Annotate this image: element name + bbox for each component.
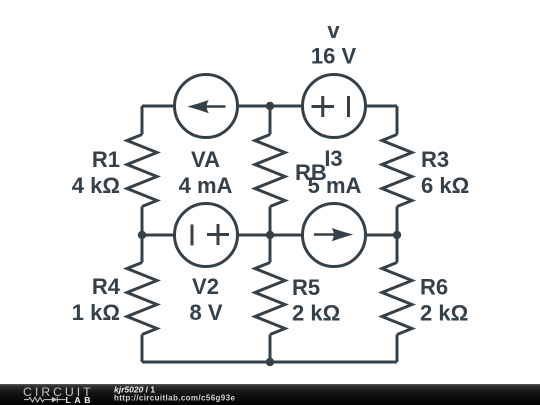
svg-text:16 V: 16 V — [311, 44, 357, 69]
svg-text:R4: R4 — [92, 274, 121, 299]
svg-text:1 kΩ: 1 kΩ — [72, 300, 120, 325]
svg-text:6 kΩ: 6 kΩ — [421, 173, 469, 198]
svg-text:http://circuitlab.com/c56g93e: http://circuitlab.com/c56g93e — [114, 393, 235, 402]
svg-text:R3: R3 — [421, 147, 449, 172]
svg-text:I3: I3 — [324, 146, 342, 171]
svg-text:2 kΩ: 2 kΩ — [292, 301, 340, 326]
svg-text:R1: R1 — [92, 147, 120, 172]
svg-text:LAB: LAB — [66, 395, 95, 405]
svg-text:8 V: 8 V — [189, 300, 222, 325]
svg-text:V2: V2 — [192, 274, 219, 299]
svg-text:R6: R6 — [420, 275, 448, 300]
svg-text:VA: VA — [191, 147, 220, 172]
svg-text:4 kΩ: 4 kΩ — [72, 173, 120, 198]
svg-text:4 mA: 4 mA — [179, 173, 233, 198]
svg-text:R5: R5 — [292, 275, 320, 300]
svg-text:2 kΩ: 2 kΩ — [420, 301, 468, 326]
svg-text:v: v — [327, 18, 340, 43]
svg-text:5 mA: 5 mA — [308, 173, 362, 198]
